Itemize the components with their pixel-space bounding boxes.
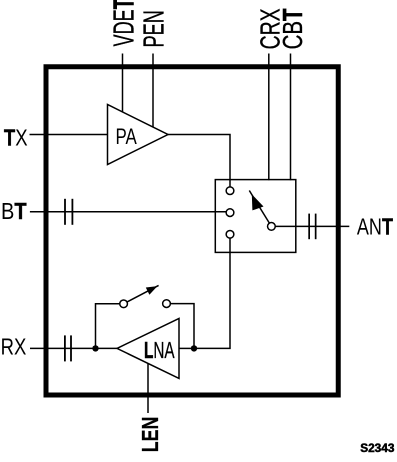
svg-text:S2343: S2343 — [360, 442, 395, 455]
svg-text:ANT: ANT — [357, 214, 393, 240]
svg-text:LEN: LEN — [138, 417, 164, 453]
svg-text:CBT: CBT — [278, 8, 309, 49]
svg-text:PEN: PEN — [139, 10, 171, 47]
svg-text:PA: PA — [116, 125, 137, 150]
svg-text:RX: RX — [1, 335, 27, 361]
svg-text:BT: BT — [1, 198, 27, 225]
svg-text:TX: TX — [4, 126, 28, 152]
svg-text:LNA: LNA — [144, 338, 175, 364]
svg-text:VDET: VDET — [109, 0, 141, 46]
